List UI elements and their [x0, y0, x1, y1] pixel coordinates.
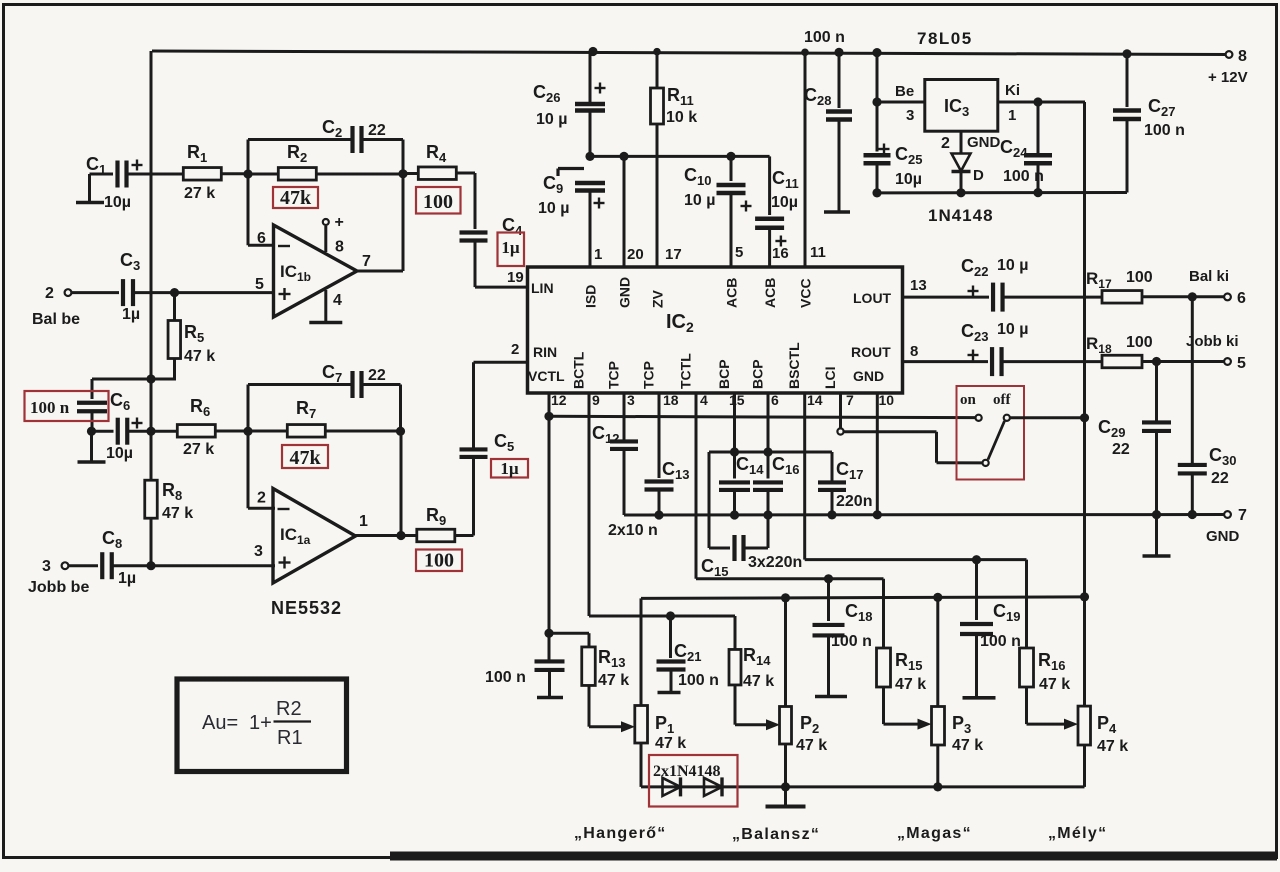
wire bias vertical	[150, 51, 153, 431]
node pin12 R13	[544, 629, 553, 638]
svg-text:100: 100	[424, 550, 454, 572]
wire pin14 BSCTL	[805, 393, 1027, 560]
node pin10 bus	[873, 510, 882, 519]
svg-text:1: 1	[594, 246, 602, 263]
svg-text:VCTL: VCTL	[528, 368, 565, 384]
label TCP pin	[641, 361, 657, 389]
wire pin12 branch R13	[549, 633, 589, 647]
label LCI pin	[822, 366, 838, 389]
pin numbers top	[594, 244, 826, 263]
wire IC1a output	[356, 534, 417, 537]
resistor R14	[729, 616, 780, 730]
resistor R15	[877, 579, 932, 730]
capacitor C23	[961, 321, 1102, 376]
wire feedback IC1a	[400, 431, 403, 535]
node rail pin20	[619, 152, 628, 161]
label on	[960, 392, 977, 408]
svg-text:RIN: RIN	[533, 344, 557, 360]
svg-text:18: 18	[663, 392, 679, 408]
node E output IC1a	[396, 531, 405, 540]
svg-text:+: +	[335, 214, 344, 231]
svg-text:LIN: LIN	[531, 280, 554, 296]
label ISD pin	[583, 285, 599, 308]
wire bias to R8	[150, 431, 153, 566]
resistor R18	[1086, 334, 1224, 368]
terminal 8 +12V	[1208, 48, 1248, 86]
svg-text:16: 16	[772, 245, 789, 262]
node bias/R6	[146, 427, 155, 436]
IC IC2 body	[528, 267, 903, 393]
wire pin9 BCTL	[589, 393, 735, 616]
label LIN	[531, 280, 554, 296]
node P3 bottom	[933, 782, 942, 791]
wire pin20 GND	[623, 156, 626, 267]
svg-text:22: 22	[368, 122, 386, 139]
resistor R9	[417, 505, 474, 542]
svg-text:Jobb be: Jobb be	[28, 579, 89, 596]
node C17 bus	[827, 510, 836, 519]
node C15 right	[763, 447, 772, 456]
op-amp IC1b	[255, 225, 371, 317]
capacitor C10	[684, 156, 752, 267]
capacitor C22	[961, 256, 1102, 312]
wire pin2 RIN	[474, 341, 528, 362]
wire pin7 LCI	[839, 393, 842, 428]
terminal 3 Jobb be	[28, 558, 89, 596]
svg-text:10 µ: 10 µ	[684, 192, 715, 209]
node C21 top	[666, 611, 675, 620]
capacitor C11	[755, 156, 799, 267]
resistor R5	[151, 293, 215, 379]
svg-text:Au=: Au=	[202, 712, 238, 734]
node IC3 input branch	[872, 48, 881, 57]
svg-text:47 k: 47 k	[796, 737, 827, 754]
svg-text:27 k: 27 k	[184, 185, 215, 202]
label 2x1N4148 red box	[649, 755, 738, 807]
label 100n top	[804, 29, 845, 46]
ground C1	[76, 174, 104, 203]
svg-text:47 k: 47 k	[1097, 738, 1128, 755]
wire off to +5V	[1010, 416, 1085, 419]
resistor R8	[145, 480, 193, 522]
svg-text:1N4148: 1N4148	[928, 206, 994, 225]
svg-text:7: 7	[1238, 507, 1247, 524]
pot P1	[635, 598, 686, 787]
svg-text:7: 7	[362, 253, 371, 270]
wire Be to IC3	[877, 101, 925, 104]
label off	[993, 392, 1011, 408]
svg-text:5: 5	[255, 276, 264, 293]
svg-text:10 µ: 10 µ	[997, 257, 1028, 274]
capacitor C19	[960, 560, 1021, 698]
svg-text:3: 3	[906, 107, 914, 124]
capacitor C14	[719, 454, 764, 515]
svg-text:19: 19	[507, 269, 524, 286]
node A feedback left	[243, 169, 252, 178]
svg-text:2: 2	[257, 490, 266, 507]
capacitor 100n input	[77, 379, 107, 431]
label R7 value 47k	[282, 445, 328, 469]
node C junction R6/R7	[243, 427, 252, 436]
wire pin6 BCP	[767, 393, 770, 479]
svg-text:8: 8	[335, 239, 344, 256]
label BCP pin	[716, 359, 732, 389]
capacitor C26	[533, 52, 606, 157]
svg-text:47 k: 47 k	[598, 672, 629, 689]
svg-text:3: 3	[254, 543, 263, 560]
node switch off branch	[1080, 413, 1089, 422]
wire bottom row	[641, 785, 1085, 788]
wire pot supply rail	[641, 597, 1085, 599]
svg-text:1: 1	[1008, 107, 1016, 124]
wire ground bus	[624, 513, 1224, 517]
svg-text:47 k: 47 k	[895, 676, 926, 693]
wire pin7 to switch	[844, 432, 983, 463]
svg-text:10µ: 10µ	[895, 171, 922, 188]
wire bias rail C9-C11	[590, 155, 770, 158]
svg-text:15: 15	[729, 392, 745, 408]
svg-text:ACB: ACB	[762, 278, 778, 308]
svg-text:6: 6	[1237, 290, 1246, 307]
svg-text:TCTL: TCTL	[678, 353, 694, 389]
svg-text:Bal ki: Bal ki	[1189, 268, 1229, 285]
resistor R11	[651, 52, 698, 126]
svg-text:78L05: 78L05	[917, 29, 973, 48]
svg-text:1µ: 1µ	[500, 459, 519, 478]
capacitor C3	[72, 250, 274, 323]
label ZV pin	[650, 289, 666, 308]
wire bias to C6	[92, 378, 151, 381]
node C3/R5	[170, 288, 179, 297]
capacitor C25	[864, 144, 923, 193]
node bias/R5	[146, 374, 155, 383]
label VCTL	[528, 368, 565, 384]
label VCC pin	[798, 278, 814, 308]
capacitor C16	[753, 454, 799, 515]
diode D1	[663, 777, 681, 796]
svg-text:220n: 220n	[836, 493, 872, 510]
svg-text:10: 10	[879, 392, 895, 408]
svg-text:12: 12	[551, 392, 567, 408]
label Balansz	[732, 826, 820, 843]
terminal 2 Bal be	[32, 285, 80, 328]
capacitor C15	[701, 452, 802, 579]
IC IC3 body	[925, 80, 998, 132]
capacitor C8	[69, 528, 276, 587]
wire IC1b output	[357, 174, 403, 271]
svg-text:27 k: 27 k	[183, 441, 214, 458]
ground P2	[766, 787, 806, 807]
label Mely	[1048, 825, 1107, 842]
switch common contact	[983, 460, 989, 466]
label TCP pin	[606, 361, 622, 389]
wire Ki output	[998, 82, 1085, 124]
capacitor C4	[460, 173, 524, 287]
svg-text:100 n: 100 n	[1003, 168, 1044, 185]
svg-text:ROUT: ROUT	[851, 344, 891, 360]
node pin12 switch wire	[544, 412, 553, 421]
svg-text:22: 22	[368, 367, 386, 384]
formula box Au	[177, 679, 347, 772]
node C24 gnd	[1033, 188, 1042, 197]
svg-text:100 n: 100 n	[831, 633, 872, 650]
label 2x10n	[608, 522, 658, 539]
wire +12V top rail	[152, 51, 1228, 55]
svg-text:TCP: TCP	[606, 361, 622, 389]
svg-text:2x10 n: 2x10 n	[608, 522, 658, 539]
resistor R4	[403, 142, 475, 179]
terminal 6 Bal ki	[1189, 268, 1246, 307]
label Magas	[897, 825, 972, 842]
svg-text:100 n: 100 n	[980, 633, 1021, 650]
svg-text:1µ: 1µ	[118, 570, 136, 587]
wire pin6 IC1b	[248, 174, 274, 245]
svg-text:ZV: ZV	[650, 289, 666, 308]
svg-text:1: 1	[359, 513, 368, 530]
svg-text:17: 17	[665, 246, 682, 263]
svg-text:BCP: BCP	[750, 359, 766, 389]
wire pin2 IC1a	[248, 431, 275, 508]
svg-text:GND: GND	[967, 134, 1001, 151]
capacitor C13	[645, 459, 690, 515]
ground pin4 IC1b	[309, 290, 342, 323]
svg-text:1µ: 1µ	[122, 306, 140, 323]
svg-text:100 n: 100 n	[804, 29, 845, 46]
label LOUT	[853, 290, 892, 306]
node D junction R7 right	[396, 427, 405, 436]
terminal LCI	[837, 428, 843, 434]
svg-text:3: 3	[627, 392, 635, 408]
resistor R13	[582, 647, 635, 732]
node C16 bus	[763, 510, 772, 519]
svg-text:3x220n: 3x220n	[748, 554, 802, 571]
label BCP pin	[750, 359, 766, 389]
svg-text:7: 7	[846, 392, 854, 408]
ground C6	[78, 431, 106, 462]
svg-text:47 k: 47 k	[655, 735, 686, 752]
svg-text:47 k: 47 k	[1039, 676, 1070, 693]
label 78L05	[917, 29, 973, 48]
svg-text:4: 4	[700, 392, 708, 408]
capacitor C24	[1000, 102, 1052, 193]
label BSCTL pin	[786, 342, 802, 389]
svg-text:2: 2	[45, 285, 54, 302]
svg-text:100 n: 100 n	[678, 672, 719, 689]
svg-text:10 µ: 10 µ	[536, 111, 567, 128]
svg-text:8: 8	[1238, 48, 1247, 65]
capacitor C29	[1098, 362, 1171, 515]
pot P2	[780, 598, 828, 787]
svg-text:47k: 47k	[289, 447, 321, 469]
svg-text:on: on	[960, 392, 977, 408]
svg-text:47 k: 47 k	[162, 505, 193, 522]
svg-text:8: 8	[910, 343, 918, 360]
svg-text:10 k: 10 k	[666, 109, 697, 126]
wire ROUT	[903, 360, 989, 363]
power pin8 IC1b	[323, 214, 344, 252]
svg-text:47 k: 47 k	[184, 348, 215, 365]
svg-text:4: 4	[333, 292, 342, 309]
label 1N4148	[928, 206, 994, 225]
node C13 bus	[654, 510, 663, 519]
label C5 value 1u	[491, 459, 528, 478]
node C19 top	[972, 555, 981, 564]
switch lever	[988, 421, 1005, 460]
svg-text:off: off	[993, 392, 1011, 408]
svg-text:VCC: VCC	[798, 278, 814, 308]
node P2 top	[781, 593, 790, 602]
svg-text:„Balansz“: „Balansz“	[732, 826, 820, 843]
svg-text:BCTL: BCTL	[571, 351, 587, 389]
svg-text:GND: GND	[1206, 528, 1240, 545]
wire pin17 ZV	[656, 124, 659, 267]
node C14 bus	[730, 510, 739, 519]
resistor R17	[1086, 269, 1224, 303]
label ACB pin	[762, 278, 778, 308]
resistor R16	[1020, 560, 1079, 730]
capacitor 100n VCTL	[485, 661, 565, 697]
wire pin19 LIN	[475, 269, 528, 287]
pot P4	[1078, 597, 1128, 787]
wire GND pin IC3	[941, 131, 1001, 153]
ground bus stub	[1143, 515, 1171, 556]
wire pin3 TCP	[623, 393, 626, 441]
label R2 value 47k	[273, 187, 318, 209]
node diode gnd	[956, 188, 965, 197]
svg-text:NE5532: NE5532	[271, 598, 342, 618]
svg-text:9: 9	[592, 392, 600, 408]
resistor R1	[183, 142, 248, 202]
node VCC branch	[801, 49, 809, 57]
svg-text:GND: GND	[617, 277, 633, 308]
capacitor C30	[1178, 297, 1237, 515]
svg-text:100 n: 100 n	[30, 398, 70, 417]
svg-text:BSCTL: BSCTL	[786, 342, 802, 389]
svg-text:47k: 47k	[280, 187, 312, 209]
svg-text:Ki: Ki	[1005, 82, 1020, 99]
svg-text:100: 100	[1126, 269, 1153, 286]
svg-text:10 µ: 10 µ	[997, 321, 1028, 338]
capacitor C2	[248, 117, 403, 174]
node C6 junction	[87, 427, 96, 436]
svg-text:+ 12V: + 12V	[1208, 69, 1248, 86]
wire pin12 VCTL	[548, 393, 551, 662]
node C15 left	[730, 447, 739, 456]
capacitor C7	[248, 362, 401, 431]
op-amp IC1a	[254, 489, 368, 584]
capacitor C12	[592, 423, 638, 515]
wire pin11 VCC	[804, 52, 807, 267]
svg-text:Bal be: Bal be	[32, 311, 80, 328]
pin numbers bottom	[551, 392, 894, 408]
svg-text:14: 14	[807, 392, 823, 408]
wire pin15 BCP	[733, 393, 736, 479]
svg-text:11: 11	[810, 244, 826, 261]
label Hangero	[574, 825, 667, 842]
label RIN	[533, 344, 557, 360]
svg-text:„Magas“: „Magas“	[897, 825, 972, 842]
label ROUT	[851, 344, 891, 360]
svg-text:Jobb ki: Jobb ki	[1186, 333, 1239, 350]
svg-text:10µ: 10µ	[106, 445, 133, 462]
capacitor C6	[92, 390, 178, 462]
label GND pin	[617, 277, 633, 308]
capacitor C27	[1113, 54, 1185, 193]
node Jobb ki / C29	[1152, 357, 1161, 366]
capacitor C5	[460, 362, 515, 535]
svg-text:47 k: 47 k	[743, 673, 774, 690]
wire regulator ground rail	[877, 191, 1127, 194]
node Bal ki / C30	[1188, 292, 1197, 301]
svg-text:10µ: 10µ	[771, 194, 798, 211]
svg-text:ISD: ISD	[583, 285, 599, 308]
node P3 top	[933, 593, 942, 602]
node Ki/C24	[1033, 97, 1042, 106]
svg-text:22: 22	[1112, 441, 1130, 458]
svg-text:ACB: ACB	[724, 278, 740, 308]
pot P3	[932, 597, 984, 787]
label GND pin10	[853, 368, 884, 384]
node P2 bottom	[781, 782, 790, 791]
diode D 1N4148	[952, 154, 985, 193]
node P4 top	[1080, 592, 1089, 601]
label BCTL pin	[571, 351, 587, 389]
svg-text:10 µ: 10 µ	[538, 200, 569, 217]
wire +5V feed	[1083, 102, 1086, 597]
svg-text:100: 100	[423, 191, 453, 213]
wire LOUT	[903, 296, 990, 299]
svg-text:5: 5	[1237, 355, 1246, 372]
svg-text:GND: GND	[853, 368, 884, 384]
wire pin18 TCP	[658, 393, 661, 478]
label R4 value 100	[416, 187, 461, 214]
node rail C10	[726, 152, 735, 161]
wire pin4 TCTL	[696, 393, 884, 579]
capacitor C18	[813, 579, 873, 697]
switch contact off	[1004, 415, 1010, 421]
svg-text:20: 20	[627, 246, 644, 263]
svg-text:LCI: LCI	[822, 366, 838, 389]
capacitor C9	[538, 169, 605, 218]
svg-text:100 n: 100 n	[1144, 122, 1185, 139]
node rail C26	[585, 152, 594, 161]
capacitor C17	[768, 452, 872, 515]
capacitor C28	[804, 52, 852, 212]
svg-text:47 k: 47 k	[952, 737, 983, 754]
node Be branch	[872, 97, 881, 106]
svg-text:13: 13	[910, 277, 927, 294]
switch on/off box	[957, 386, 1025, 480]
resistor R2	[248, 142, 403, 180]
svg-text:„Hangerő“: „Hangerő“	[574, 825, 667, 842]
wire pin1 ISD	[589, 191, 592, 268]
node B feedback right	[398, 169, 407, 178]
resistor R7	[248, 398, 401, 437]
svg-text:3: 3	[42, 558, 51, 575]
node C25 gnd	[872, 188, 881, 197]
label NE5532	[271, 598, 342, 618]
label R9 value 100	[416, 550, 462, 572]
svg-text:D: D	[973, 167, 984, 184]
switch contact on	[976, 415, 982, 421]
svg-text:2x1N4148: 2x1N4148	[653, 763, 721, 780]
node R8/C8	[146, 561, 155, 570]
svg-text:R2: R2	[276, 698, 302, 720]
svg-text:10µ: 10µ	[104, 194, 131, 211]
wire pin12 to switch	[549, 416, 975, 417]
svg-text:6: 6	[771, 392, 779, 408]
resistor R6	[177, 396, 248, 458]
